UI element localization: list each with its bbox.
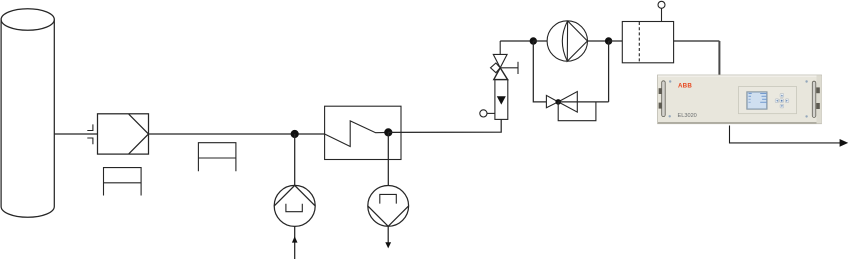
keypad buttons [775, 94, 789, 108]
wire: regulator pilot loop [558, 102, 596, 121]
needle valve V1 on rotameter [491, 41, 519, 80]
svg-text:EL3020: EL3020 [678, 113, 697, 119]
node: junction to pump P1 [291, 130, 299, 138]
control panel recess [739, 87, 797, 114]
wire: left bypass drop [533, 41, 546, 102]
flow meter FI (rotameter tube) [495, 80, 508, 120]
vent circle on filter F2 [658, 1, 665, 21]
wire: junction to filter F2 [609, 40, 623, 42]
wire: junction down to pump P1 [294, 134, 296, 185]
cooler (sample gas cooler box with sawtooth) [325, 106, 401, 159]
filter F2 (fine filter with dashed element) [622, 22, 673, 63]
pump P2 (condensate drain pump, arrow out) [368, 186, 409, 249]
wire: regulator outlet up to junction [558, 41, 608, 102]
wire: junction to pump P3 inlet [533, 40, 547, 42]
screws [669, 80, 671, 82]
analyzer U1: ABB EL3020 rack unit [658, 75, 822, 124]
sensor circle on rotameter [480, 110, 495, 117]
node: junction right of sample pump [605, 37, 612, 44]
stack/chimney cylinder [1, 9, 54, 218]
heated line symbol 2 [198, 143, 236, 172]
right rack handle [812, 81, 820, 117]
wire: valve top to pump loop [500, 40, 533, 42]
pump P1 (condensate pump, arrow in) [274, 185, 315, 259]
heated line symbol 1 [104, 168, 142, 196]
left rack handle [659, 81, 666, 117]
svg-text:ABB: ABB [678, 83, 692, 90]
wire: pump P3 outlet to junction [587, 40, 608, 42]
wire: filter to cooler [149, 133, 325, 135]
sampling point marks [87, 124, 93, 144]
wire: junction down to pump P2 [387, 132, 389, 185]
pump P3 (sample gas pump) [547, 21, 587, 61]
node: junction left of sample pump [530, 37, 537, 44]
pressure regulator valve V2 (bypass) [546, 92, 577, 113]
filter F1 (probe filter box with chevron) [98, 114, 149, 154]
LCD display [747, 92, 768, 110]
wire: probe line from stack to filter [54, 133, 97, 135]
wire: cooler outlet to rotameter riser [388, 119, 501, 132]
wire: analyzer outlet with arrow [730, 126, 849, 147]
node: junction inside cooler to pump P2 [384, 128, 392, 136]
wire: filter F2 to analyzer inlet [674, 40, 720, 42]
